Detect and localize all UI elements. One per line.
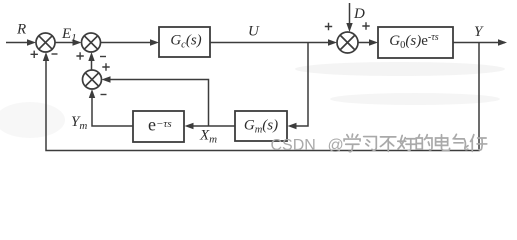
watermark CSDN @... (271, 137, 344, 154)
arrowhead R into sum1 (27, 39, 36, 45)
sign plus at small summer right input (102, 63, 109, 70)
arrowhead feedback into sum1 bottom (43, 52, 49, 61)
summing junction sum2 (82, 33, 101, 52)
watermark chinese glyphs (drawn) (344, 134, 487, 152)
svg-text:U: U (248, 24, 260, 40)
block Gc(s) (159, 27, 210, 57)
wire small summer up into sum2 (91, 60, 93, 70)
background smudge mid-right (330, 93, 500, 105)
svg-text:@: @ (328, 137, 344, 154)
wire sum2 to Gc (101, 42, 152, 44)
sign plus at sum2 left (76, 52, 83, 59)
wire Gc to Dsum (210, 42, 329, 44)
wire Xm tap up into small summer (109, 80, 209, 127)
svg-text:CSDN: CSDN (271, 137, 316, 154)
wire delay out, Ym corner, up into small summer (92, 97, 133, 126)
arrowhead into Gc (150, 39, 159, 45)
arrowhead small summer into sum2 bottom (88, 52, 94, 61)
watermark glyph hao (398, 135, 416, 150)
svg-text:Gc(s): Gc(s) (170, 33, 201, 51)
arrowhead Ym into small summer bottom (89, 89, 95, 98)
wire G0 to Y output (453, 42, 505, 44)
sign minus at sum1 right (52, 53, 58, 55)
arrowhead into Dsum left (328, 39, 337, 45)
sign plus at Dsum left (325, 23, 332, 30)
watermark glyph zi (471, 135, 487, 152)
sign minus at sum2 right (100, 56, 106, 58)
svg-text:D: D (353, 6, 365, 22)
svg-text:R: R (16, 22, 26, 38)
block G0(s)e^-ts (378, 27, 453, 58)
watermark glyph xi (364, 137, 377, 151)
wire R input (6, 42, 28, 44)
arrowhead into small summer right (102, 76, 111, 82)
background smudge top-right (295, 62, 505, 76)
watermark glyph de (416, 135, 432, 150)
wire Dsum to G0 (358, 42, 370, 44)
arrowhead into Gm right (288, 123, 297, 129)
watermark glyph bu (380, 137, 395, 152)
watermark glyph xue (344, 134, 360, 152)
sign minus at small summer bottom input (101, 94, 107, 96)
block e^-ts delay (133, 111, 184, 142)
wire D input (349, 3, 351, 24)
background smudge bottom-left (0, 102, 65, 138)
watermark glyph dian (436, 135, 450, 151)
sign plus at sum1 left (31, 51, 38, 58)
arrowhead E1 into sum2 (73, 39, 82, 45)
summing junction sum1 (36, 33, 55, 52)
wire Gm to delay block (Xm) (192, 125, 235, 127)
summing junction Dsum (337, 32, 358, 53)
sign plus at Dsum right (362, 22, 369, 29)
summing junction small (Xm - Ym) (83, 70, 102, 89)
arrowhead D into Dsum top (346, 23, 352, 32)
arrowhead Xm into delay block (185, 123, 194, 129)
arrowhead into G0 (369, 39, 378, 45)
watermark glyph qi (453, 134, 468, 149)
wire sum1 to sum2 (55, 42, 74, 44)
arrowhead Y output (498, 39, 507, 45)
block Gm(s) (235, 111, 287, 141)
wire outer feedback: down right side, along bottom, up into sum1 (46, 43, 479, 151)
wire U tap down into Gm (295, 43, 308, 127)
